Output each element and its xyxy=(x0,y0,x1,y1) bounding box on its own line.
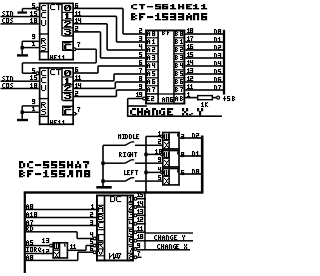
DD4.1 W cell xyxy=(164,134,169,140)
DD5 ABC cells xyxy=(96,205,105,231)
DD5 cell V xyxy=(98,249,103,255)
enable riser xyxy=(145,136,147,192)
counter DD1 pin 9 label xyxy=(32,34,35,39)
counter DD2 carry bubble pin7 xyxy=(73,107,80,115)
counter DD2 digit 3 xyxy=(64,93,71,99)
DD5 cell A xyxy=(98,206,103,212)
DD3 cell A2 xyxy=(147,47,155,52)
DD4.2 W cell xyxy=(164,152,169,158)
net label D0 xyxy=(214,29,221,34)
counter DD2 pin 5 label xyxy=(32,68,35,73)
DD4.2 3state mark xyxy=(177,152,178,155)
DD5 cell R xyxy=(98,242,103,248)
power bar DD1 xyxy=(18,11,27,13)
junction counter DD2 pins 9-1 xyxy=(21,111,24,114)
counter DD2 pin 15 label xyxy=(30,75,37,80)
DD4.4 pin 13 label xyxy=(42,238,49,243)
ground bar counter DD2 xyxy=(17,119,28,121)
DD5 cell L xyxy=(98,235,103,241)
label A5 xyxy=(26,240,33,245)
DD5 pin 13 label xyxy=(137,209,143,214)
DD3 columns xyxy=(157,30,175,105)
DD5 pin 2 label xyxy=(90,212,93,217)
wire counter DD2 pin9 xyxy=(22,105,39,107)
counter DD1 carry cell xyxy=(62,41,74,51)
switch RIGHT label xyxy=(119,152,137,157)
DD3 cell E2 xyxy=(147,96,154,101)
wire DD5 out2 stub xyxy=(137,206,146,208)
title DC-555ID7 xyxy=(19,161,89,168)
DD4.1 3state mark xyxy=(177,134,178,137)
counter DD1 digit 3 xyxy=(64,29,71,35)
DD3 pin 2 label xyxy=(139,28,142,33)
counter DD1 digit 2 xyxy=(64,21,71,27)
net label D2 xyxy=(214,45,221,50)
CHANGE X label xyxy=(157,244,187,249)
counter DD1 pin 11 label xyxy=(75,11,81,16)
wire DD5 out7 CHANGE X xyxy=(137,249,190,251)
wire A10 xyxy=(26,217,96,219)
counter DD1 pin 5 label xyxy=(32,3,35,8)
bus transceiver DD3 box xyxy=(145,30,185,105)
buffer DD4.4 box xyxy=(52,242,68,259)
DD3 pin 19 label xyxy=(136,92,142,97)
DD4.4 W cell xyxy=(54,243,59,249)
title BF-1533AP6 xyxy=(131,13,207,20)
DD3 cell B6 xyxy=(175,79,183,84)
counter DD2 pin 14 label xyxy=(75,83,81,88)
DD5 cell out4 xyxy=(129,221,133,227)
counter DD1 pin 6 label xyxy=(75,3,78,8)
wire R1 to +5V xyxy=(213,97,217,99)
counter DD2 digit 0 xyxy=(64,70,71,76)
label A8 xyxy=(26,204,33,209)
DD4.3 3state mark xyxy=(177,170,178,173)
buffer DD4.1 box xyxy=(162,132,180,150)
DD5 cell out8 xyxy=(129,254,133,260)
wire DD3 B5 to data bus D5 xyxy=(185,73,223,75)
DD3 pin 1 label xyxy=(187,92,190,97)
wire DD3 B6 to data bus D6 xyxy=(185,81,223,83)
DD5 pin 9 label xyxy=(137,243,140,248)
switch MIDDLE xyxy=(103,141,162,146)
DD3 cell A1 xyxy=(147,39,155,44)
wire DD3 B0 to data bus D0 xyxy=(185,33,223,35)
wire A5 to DD4.4 pin13 xyxy=(26,245,49,247)
net label D4 xyxy=(214,61,221,66)
counter DD1 type label IE11 xyxy=(50,55,65,60)
counter DD2 left column divider xyxy=(48,67,50,125)
wire carry left xyxy=(22,62,96,64)
DD4.2 out pin 8 label xyxy=(181,152,184,157)
DD5 out7 bubble xyxy=(134,248,137,251)
DD5 cell out1 xyxy=(129,196,133,202)
DD5 out3 bubble xyxy=(134,214,137,217)
DD3 cell A3 xyxy=(147,55,155,60)
wire enable stub DD4.1 xyxy=(146,136,161,138)
DD5 pin 14 label xyxy=(137,201,143,206)
DD4.2 enable bubble xyxy=(161,153,164,156)
DD5 out8 bubble xyxy=(134,256,137,259)
label IORQ xyxy=(26,247,41,252)
wire DD2 out0 to DD3 A4 xyxy=(74,65,145,74)
DD5 DC label xyxy=(110,196,121,202)
counter DD2 output column xyxy=(61,67,74,101)
counter DD2 pin 10 label xyxy=(30,83,37,88)
decoder DD5 box xyxy=(96,195,134,262)
DD3 pin 5 label xyxy=(139,52,142,57)
wire enable stub DD4.2 xyxy=(146,154,161,156)
wire DD1 out2 to DD3 A2 xyxy=(74,23,145,51)
DD5 V bubble xyxy=(93,251,96,254)
DD5 out6 bubble xyxy=(134,239,137,242)
junction rail LEFT xyxy=(101,179,104,182)
DD3 pin 16 label xyxy=(187,44,193,49)
switch common rail xyxy=(102,145,104,186)
wire carry down left xyxy=(22,63,24,73)
switch RIGHT xyxy=(103,159,162,164)
counter DD2 CCU cells xyxy=(39,70,49,99)
counter DD2 digit 1 xyxy=(65,78,71,84)
wire DD5 out1 stub xyxy=(137,198,146,200)
counter DD2 type label IE11 xyxy=(50,120,65,125)
DD3 pin 4 label xyxy=(139,44,142,49)
wire IORQ to DD4.4 pin12 xyxy=(26,253,53,255)
DD4.3 X cell xyxy=(164,178,169,184)
DD4.1 pin 2 label xyxy=(158,139,161,144)
wire SIN to counter DD2 pin15 xyxy=(1,80,39,82)
counter DD1 pin 1 label xyxy=(32,41,35,46)
CHANGE X,Y label xyxy=(130,108,203,115)
DD4.3 pin 4 label xyxy=(158,167,161,172)
DD5 pin 3 label xyxy=(90,220,93,225)
wire enable stub DD4.3 xyxy=(146,172,161,174)
net label D2 xyxy=(192,133,199,138)
DD3 pin 18 label xyxy=(187,28,193,33)
counter DD1 carry bubble pin7 xyxy=(73,42,80,51)
R1 value 1K xyxy=(201,102,208,107)
DD3 cell dividers xyxy=(145,37,185,94)
counter DD2 clock bubble pin5 xyxy=(36,72,39,75)
ground bar counter DD1 xyxy=(17,54,28,56)
DD5 R bubble xyxy=(93,244,96,247)
wire DD3 B7 to data bus D7 xyxy=(185,89,223,91)
net label D6 xyxy=(214,77,221,82)
DD5 out4 bubble xyxy=(134,222,137,225)
net label D0 xyxy=(192,169,199,174)
DD4.3 out pin 6 label xyxy=(181,170,184,175)
counter DD2 pin 11 label xyxy=(75,75,81,80)
net label D3 xyxy=(214,53,221,58)
junction riser pin10 xyxy=(144,153,147,156)
wire counter DD1 pin1 xyxy=(22,47,39,49)
wire A0 xyxy=(26,251,94,261)
DD5 cell B xyxy=(98,214,103,220)
wire DD3 B4 to data bus D4 xyxy=(185,65,223,67)
DD3 cell B3 xyxy=(175,55,183,60)
counter DD1 CT label xyxy=(50,4,61,10)
label A7 xyxy=(26,220,33,225)
counter DD2 pin 1 label xyxy=(32,106,35,111)
wire COS to counter DD1 pin10 xyxy=(1,23,39,25)
counter DD2 SIN label xyxy=(2,76,13,81)
junction riser pin4 xyxy=(144,171,147,174)
DD4.4 bubble pin13 xyxy=(50,244,53,247)
counter DD1 box xyxy=(39,3,74,61)
DD5 out5 bubble xyxy=(134,231,137,234)
CHANGE X,Y box xyxy=(127,99,222,118)
DD3 cell B5 xyxy=(175,71,183,76)
DD5 out1 bubble xyxy=(134,197,137,200)
wire DD5 out6 CHANGE Y xyxy=(137,240,193,242)
counter DD2 CT label xyxy=(50,69,61,75)
DD5 L bubble xyxy=(93,237,96,240)
counter DD1 CCU cells xyxy=(39,5,49,35)
label A10 xyxy=(26,212,37,217)
wire DD1 out0 to DD3 A0 xyxy=(74,8,145,35)
junction counter DD1 pins 9-1 xyxy=(21,46,24,49)
wire counter DD1 pin9 xyxy=(22,41,39,43)
CHANGE Y label xyxy=(154,235,185,240)
DD5 pin 10 label xyxy=(137,234,143,239)
DD5 pin 11 label xyxy=(137,226,143,231)
net label D1 xyxy=(192,151,199,156)
wire counter DD2 pin1 xyxy=(22,111,39,113)
DD4.1 enable bubble xyxy=(161,135,164,138)
net label D7 xyxy=(214,85,221,90)
wire A8 xyxy=(26,209,96,211)
junction rail RIGHT xyxy=(101,162,104,165)
DD5 pin 5 label xyxy=(90,239,93,244)
wire DD3 B2 to data bus D2 xyxy=(185,49,223,51)
counter DD2 box xyxy=(39,67,74,125)
DD5 cell C xyxy=(98,222,103,228)
DD3 cell B7 xyxy=(175,87,183,92)
DD3 BF label xyxy=(162,30,170,35)
wire DD4.1 out to bus D2 xyxy=(180,137,201,139)
stub DD2 pin7 xyxy=(76,113,77,114)
DD4.3 pin 5 label xyxy=(158,175,161,180)
DD4.4 out pin 11 label xyxy=(70,244,76,249)
counter DD2 RS cells xyxy=(39,102,49,117)
decoder bus riser xyxy=(144,193,146,233)
wire DD3 AB pin1 xyxy=(185,97,197,99)
DD5 pin 4 label xyxy=(90,232,93,237)
wire DD1 out3 to DD3 A3 xyxy=(74,31,145,59)
wire clock pin5 DD1 xyxy=(22,8,36,10)
wire DD2 out3 to DD3 A7 xyxy=(74,89,145,97)
label RD xyxy=(26,226,33,231)
counter DD1 RS cells xyxy=(39,38,49,53)
DD3 pin 12 label xyxy=(187,76,193,81)
wire counter DD1 ground rail xyxy=(21,41,23,54)
DD5 cell out6 xyxy=(129,237,133,243)
DD3 pin 17 label xyxy=(187,36,193,41)
DD3 cell B1 xyxy=(175,39,183,44)
+5V terminal xyxy=(217,96,220,99)
counter DD1 pin 10 label xyxy=(30,18,37,23)
wire DD4.4 out to pin5 xyxy=(68,245,93,251)
DD5 pin 7 label xyxy=(137,251,140,256)
counter DD1 output column xyxy=(61,3,74,37)
DD3 pin 3 label xyxy=(139,36,142,41)
counter DD1 digit 1 xyxy=(65,13,71,19)
switch MIDDLE label xyxy=(118,134,139,139)
wire carry DD1 pin7 xyxy=(76,48,96,50)
DD3 cell A6 xyxy=(147,79,155,84)
counter DD1 pin 2 label xyxy=(75,26,78,31)
DD5 pin 6 label xyxy=(90,246,93,251)
DD4.2 pin 9 label xyxy=(158,157,161,162)
buffer DD4.2 box xyxy=(162,150,180,168)
label A0 xyxy=(26,255,33,260)
DD4.2 X cell xyxy=(164,160,169,166)
wire RD xyxy=(26,231,77,233)
counter DD1 pin 14 label xyxy=(75,18,81,23)
wire DD5 out4 stub xyxy=(137,223,146,225)
DD3 cell AB xyxy=(175,96,183,101)
DD3 AP6 label xyxy=(162,97,173,102)
DD5 pin 12 label xyxy=(137,217,143,222)
DD5 out2 bubble xyxy=(134,206,137,209)
wire A7 xyxy=(26,225,96,227)
wire RD to pin4 xyxy=(76,232,93,239)
CHANGE Y box xyxy=(144,232,193,241)
DD3 pin 6 label xyxy=(139,60,142,65)
DD3 E2 bubble xyxy=(143,97,146,100)
DD4.4 3state mark xyxy=(64,244,65,247)
wire DD1 out1 to DD3 A1 xyxy=(74,16,145,43)
counter DD1 COS label xyxy=(2,18,13,23)
DD3 cell B2 xyxy=(175,47,183,52)
address rail left xyxy=(24,193,26,274)
buffer DD4.3 box xyxy=(162,168,180,186)
wire DD3 B1 to data bus D1 xyxy=(185,41,223,43)
title BF-155LP8 xyxy=(19,170,90,177)
+5V label xyxy=(223,96,235,101)
wire DD2 out2 to DD3 A6 xyxy=(74,81,145,89)
DD5 LRV cells xyxy=(96,234,105,256)
wire DD3 B3 to data bus D3 xyxy=(185,57,223,59)
DD5 out dividers xyxy=(128,202,135,254)
wire DD4.3 out to bus D0 xyxy=(180,173,201,175)
wire SIN to counter DD1 pin15 xyxy=(1,16,39,18)
DD3 pin 15 label xyxy=(187,52,193,57)
wire carry to DD2 pin5 xyxy=(22,72,36,74)
wire E2 from CHANGE XY xyxy=(128,98,144,100)
counter DD1 pin 15 label xyxy=(30,11,37,16)
resistor R1 1K xyxy=(197,95,213,101)
DD4.1 pin 1 label xyxy=(158,131,161,136)
wire DD2 out1 to DD3 A5 xyxy=(74,73,145,82)
DD5 cell out2 xyxy=(129,204,133,210)
DD3 cell A4 xyxy=(147,63,155,68)
wire counter DD2 ground rail xyxy=(21,106,23,119)
counter DD2 COS label xyxy=(2,83,13,88)
DD5 ID7 label xyxy=(109,253,121,259)
counter DD2 digit 2 xyxy=(64,85,71,91)
DD3 cell A7 xyxy=(147,87,155,92)
switch LEFT label xyxy=(124,170,138,175)
data bus bar top xyxy=(223,30,225,95)
wire DD5 out5 stub xyxy=(137,231,146,233)
counter DD1 clock bubble pin5 xyxy=(36,7,39,10)
DD5 columns xyxy=(104,195,129,262)
net label D1 xyxy=(214,37,221,42)
data bus bottom horizontal xyxy=(24,191,204,193)
wire DD4.2 out to bus D1 xyxy=(180,155,201,157)
DD3 cell B4 xyxy=(175,63,183,68)
CHANGE X box xyxy=(144,241,145,250)
counter DD2 pin 2 label xyxy=(75,91,78,96)
DD5 pin 1 label xyxy=(91,204,94,209)
DD3 cell A5 xyxy=(147,71,155,76)
DD4.3 enable bubble xyxy=(161,171,164,174)
counter DD1 SIN label xyxy=(2,11,13,16)
wire DD5 out8 stub xyxy=(137,257,142,259)
DD4.1 out pin 3 label xyxy=(181,134,184,139)
DD5 cell out5 xyxy=(129,229,133,235)
DD3 pin 11 label xyxy=(187,84,193,89)
DD4.4 pin 12 label xyxy=(42,249,49,254)
counter DD1 digit 0 xyxy=(64,5,71,11)
power stub DD1 xyxy=(22,9,24,12)
wire carry down xyxy=(95,49,97,63)
DD3 cell B0 xyxy=(175,31,183,36)
DD4.1 X cell xyxy=(164,142,169,148)
wire COS to counter DD2 pin10 xyxy=(1,88,39,90)
switch LEFT xyxy=(103,177,162,182)
wire DD5 out3 stub xyxy=(137,215,146,217)
DD3 cell A0 xyxy=(147,31,155,36)
title CT-561IE11 xyxy=(131,4,207,9)
ground bar switches xyxy=(96,186,111,189)
DD3 pin 7 label xyxy=(139,68,142,73)
counter DD1 left column divider xyxy=(48,3,50,61)
DD4.4 X cell xyxy=(54,252,59,258)
counter DD2 pin 9 label xyxy=(32,99,35,104)
DD4.3 W cell xyxy=(164,170,169,176)
DD3 pin 9 label xyxy=(139,84,142,89)
net label D5 xyxy=(214,69,221,74)
DD3 pin 13 label xyxy=(187,68,193,73)
DD5 pin 15 label xyxy=(137,192,143,197)
counter DD2 carry cell xyxy=(62,106,74,116)
DD5 cell out3 xyxy=(129,212,133,218)
counter DD2 pin 6 label xyxy=(75,67,78,72)
DD3 pin 8 label xyxy=(139,76,142,81)
DD5 cell out7 xyxy=(129,246,133,252)
DD3 pin 14 label xyxy=(187,60,193,65)
data bus bar bottom xyxy=(201,136,204,194)
DD4.2 pin 10 label xyxy=(155,149,162,154)
